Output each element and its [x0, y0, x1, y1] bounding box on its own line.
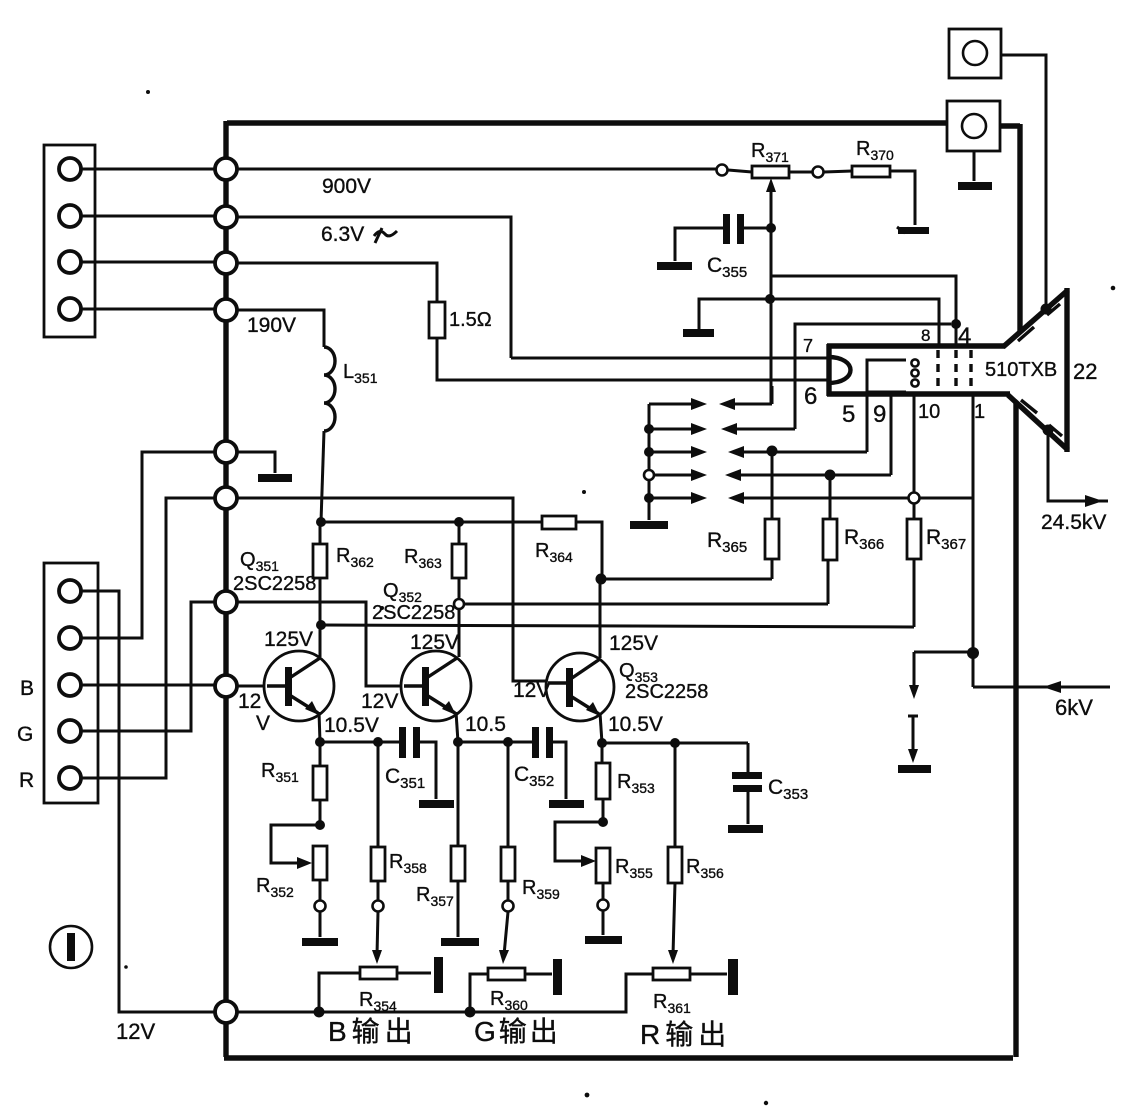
resistor R361 (pot) [653, 968, 690, 980]
svg-text:10.5: 10.5 [465, 713, 506, 736]
spark gap row1 right arrow to heater net [719, 398, 735, 410]
wire R371 to node [789, 171, 812, 174]
connector box P2 below P1 [947, 101, 1000, 151]
svg-text:12V: 12V [116, 1019, 155, 1044]
bus node circle gnd [215, 441, 237, 463]
wire R366 top riser [829, 475, 832, 519]
svg-text:6kV: 6kV [1055, 695, 1093, 720]
ground on grid2 line [683, 329, 714, 337]
svg-text:6: 6 [804, 383, 817, 410]
wire C353 to ground [747, 792, 750, 824]
wire node to R370 [824, 171, 852, 172]
node terminal circle left of R371 [717, 165, 728, 176]
spark gap to ground (dashed arrows) [913, 652, 916, 688]
wire R351 leads [319, 742, 322, 825]
connector J2 pin circle 2 (gnd) [59, 627, 81, 649]
wire R357 leads [457, 742, 460, 937]
wire R356 leads to R361 wiper [673, 743, 675, 955]
wire J1-3 to bus [81, 261, 215, 264]
CRT funnel interior mask [827, 291, 1067, 449]
ground below spark gap [898, 765, 931, 773]
spark gap row5 right arrow to pin1 [728, 492, 744, 504]
ground below C351 [419, 800, 454, 808]
wire R364 to Q353 collector node [576, 522, 602, 579]
junction emitter2 [453, 737, 463, 747]
junction row4 to R366 [825, 470, 836, 481]
svg-text:10.5V: 10.5V [608, 713, 663, 736]
CRT funnel top diagonal [1003, 290, 1068, 347]
wire Q352 collector lead [458, 609, 461, 657]
wire Q352 emitter line [458, 741, 533, 744]
connector J1 pin circle 4 [59, 298, 81, 320]
junction Q353 collector node [596, 574, 607, 585]
junction grid2 line [765, 294, 775, 304]
wire R355 bottom [602, 883, 605, 899]
CRT neck top [827, 343, 1005, 348]
node circle spark bus row4 [644, 470, 654, 480]
connector J1 pin circle 1 [59, 158, 81, 180]
wire C352 to ground [553, 742, 566, 799]
connector J2 pin circle 3 (B) [59, 674, 81, 696]
junction row3 to R365 [767, 446, 778, 457]
wire R354 right to terminal [397, 972, 431, 975]
svg-text:8: 8 [921, 326, 930, 345]
junction spark bus row5 [644, 493, 654, 503]
wire gnd stem of grid2 line [699, 299, 939, 346]
svg-text:10: 10 [918, 401, 940, 423]
CRT grid dashes pin1 [969, 350, 972, 390]
node circle R355 [598, 900, 609, 911]
resistor R352 (preset) [313, 846, 327, 880]
wire Q353 emitter line [602, 742, 748, 745]
wire R367 top riser / pin10 [913, 394, 916, 519]
wire C351 to ground [420, 742, 436, 799]
CRT grid dashes pin4 [954, 350, 957, 390]
junction emitter1-R358 [373, 737, 383, 747]
wire Q351 emitter line [320, 741, 400, 744]
svg-text:7: 7 [803, 336, 813, 356]
wire J1-2 to bus [81, 215, 215, 218]
svg-text:B输出: B输出 [328, 1016, 418, 1047]
wire pin3 rail to 1.5ohm [237, 263, 437, 302]
junction pin1 node [967, 647, 979, 659]
CRT funnel dashed coating top [1018, 304, 1060, 341]
ground below C352 [549, 800, 584, 808]
wire R360 right to terminal [525, 973, 552, 976]
junction above R352 [315, 820, 325, 830]
terminal bar right of R360 [553, 959, 562, 995]
wire 6kV [973, 686, 1110, 689]
connector J2 pin circle 5 (R) [59, 767, 81, 789]
junction anode dot on top diagonal [1041, 304, 1052, 315]
resistor R366 [823, 519, 837, 560]
svg-text:G输出: G输出 [474, 1016, 561, 1047]
svg-text:R: R [19, 769, 34, 792]
CRT grid dashes pin8 [936, 350, 939, 390]
ground below R370 [898, 227, 929, 234]
resistor R356 [668, 847, 682, 883]
wire R input net to Q353 base [237, 498, 548, 681]
capacitor C355 [723, 214, 730, 244]
wire Q352 collector to R366 [464, 560, 828, 604]
wire C355 node down to spark row1 [770, 228, 773, 404]
wire R input J2-5 riser [81, 498, 215, 778]
resistor 1.5ohm [429, 302, 445, 338]
CRT funnel bottom diagonal [1008, 395, 1068, 450]
wire to R371 [728, 170, 752, 172]
wire Q353 emitter lead [600, 713, 602, 743]
spark gap bus left [648, 404, 651, 520]
wire Q353 collector lead [599, 579, 602, 658]
spark gap row2 left arrow [649, 428, 694, 431]
svg-text:190V: 190V [247, 314, 296, 337]
svg-text:6.3V: 6.3V [321, 223, 364, 246]
R371 wiper arrow [770, 186, 773, 228]
svg-text:V: V [256, 712, 270, 735]
spark gap row3 left arrow [649, 451, 694, 454]
connector J2 pin circle 1 (12V) [59, 580, 81, 602]
svg-text:125V: 125V [609, 632, 658, 655]
wire R358 leads [377, 742, 380, 900]
wire to C353 [747, 743, 750, 772]
ground below C353 [728, 825, 763, 833]
wire pin1 down [972, 394, 975, 687]
resistor R357 [451, 846, 465, 881]
wire J1-1 to bus [81, 168, 215, 171]
svg-text:R输出: R输出 [640, 1019, 731, 1050]
terminal bar right of R361 [728, 959, 738, 995]
connector J1 upper-left [44, 145, 95, 337]
capacitor C351 [399, 727, 406, 758]
CRT neck bottom [827, 391, 1010, 396]
svg-text:5: 5 [842, 401, 855, 428]
wire 1.5ohm to heater pin6 [437, 338, 828, 380]
CRT neck left cap [826, 344, 831, 396]
connector J2 lower-left [44, 563, 98, 803]
node circle R352 [315, 901, 326, 912]
wire 24.5kV [1048, 430, 1108, 501]
connector J1 pin circle 2 [59, 205, 81, 227]
svg-text:12V: 12V [513, 679, 550, 702]
bus node circle B [215, 675, 237, 697]
resistor R355 (preset) [596, 848, 610, 883]
scan speckles [146, 90, 150, 94]
wire B input net to Q351 base [237, 685, 267, 688]
connector J1 pin circle 3 [59, 251, 81, 273]
resistor R359 [501, 847, 515, 881]
wire 900V rail [237, 168, 717, 171]
ground right of gnd node [258, 474, 292, 482]
svg-text:12: 12 [238, 690, 261, 713]
svg-text:B: B [20, 677, 34, 700]
resistor R365 [765, 519, 779, 559]
resistor R362 [313, 544, 327, 578]
svg-text:2SC2258: 2SC2258 [625, 681, 708, 703]
wire grid line to pin4 [771, 276, 956, 346]
wire 6.3V rail to heater pin7 [237, 217, 828, 358]
resistor R364 [542, 516, 576, 529]
ground left of C355 [657, 262, 692, 270]
resistor R367 [907, 519, 921, 559]
wire B input J2-3 to bus [81, 684, 215, 687]
spark gap row4 right arrow to pin9 [725, 469, 741, 481]
wire riser to R354 [319, 973, 360, 1012]
wire Q353 collector to R365 [601, 559, 772, 579]
svg-text:2SC2258: 2SC2258 [372, 602, 455, 624]
svg-text:4: 4 [958, 323, 971, 350]
svg-text:24.5kV: 24.5kV [1041, 511, 1106, 534]
wire R370 to ground [890, 171, 915, 225]
junction emitter3-R356 [670, 738, 680, 748]
connector J2 pin circle 4 (G) [59, 720, 81, 742]
node circle Q352 collector [454, 599, 464, 609]
capacitor C353 [732, 772, 762, 779]
spark gap row1 left arrow [649, 403, 694, 406]
resistor R358 [371, 847, 385, 881]
wire R363 leads [458, 522, 461, 599]
wire G input net to Q352 base [237, 602, 404, 686]
svg-text:22: 22 [1073, 359, 1097, 384]
svg-text:510TXB: 510TXB [985, 359, 1057, 381]
main circuit board border bottom [224, 1055, 1013, 1060]
transistor Q352 [401, 651, 471, 721]
junction rail R363 [454, 517, 464, 527]
wire pin1 node to spark gap [914, 651, 973, 654]
junction rail R362 [316, 517, 326, 527]
junction emitter1 [315, 737, 325, 747]
junction spark bus row3 [644, 447, 654, 457]
main circuit board border right upper [1000, 124, 1020, 334]
svg-text:1.5Ω: 1.5Ω [449, 309, 492, 331]
wire gnd bus node to ground [237, 452, 275, 473]
transistor Q351 [264, 651, 334, 721]
junction rail R354 [314, 1007, 325, 1018]
resistor R351 [313, 766, 327, 800]
bus node circle 6.3V [215, 206, 237, 228]
wire R355 node to ground [602, 911, 605, 935]
ground below R352 [302, 938, 338, 946]
spark gap row2 right arrow to pin4 net [721, 423, 737, 435]
wire R362 leads [319, 522, 322, 625]
R355 preset feedback loop [555, 822, 603, 861]
CRT cathode marks [911, 359, 918, 366]
CRT funnel dashed coating bottom [1021, 400, 1062, 436]
wire P1 to funnel anode dot [1001, 55, 1046, 306]
wire P2 to ground [973, 151, 976, 181]
wire G input J2-4 riser [81, 602, 215, 731]
wire R358 node to R354 wiper [377, 912, 378, 955]
node circle R358 [373, 901, 384, 912]
wire R352 node to ground [319, 912, 322, 937]
R352 preset feedback loop [271, 825, 320, 863]
junction spark bus row2 [644, 424, 654, 434]
ground below R355 [585, 936, 622, 944]
junction emitter2-R359 [503, 737, 513, 747]
wire J1-4 to bus [81, 308, 215, 311]
wire pin4 bypass to spark row2 [795, 324, 951, 429]
svg-text:2SC2258: 2SC2258 [233, 573, 316, 595]
node circle R359 [503, 901, 514, 912]
svg-text:9: 9 [873, 401, 886, 428]
resistor R370 [852, 166, 890, 177]
resistor R354 (pot) [360, 967, 397, 979]
wire Q351 collector to R367 [321, 559, 914, 627]
marker circled-i [50, 926, 92, 968]
wire R359 node to R360 wiper [504, 912, 508, 955]
resistor R363 [452, 544, 466, 578]
wire riser to R360 [470, 974, 488, 1012]
resistor R353 [596, 763, 610, 799]
spark gap row4 left arrow [654, 474, 694, 477]
wire 125V rail [321, 521, 542, 524]
wire Q351 emitter lead [319, 712, 320, 742]
wire 12V from J2-1 down to bottom rail [81, 591, 215, 1012]
svg-text:G: G [17, 723, 33, 746]
junction rail R360 [465, 1007, 476, 1018]
junction on pin4 line [951, 319, 961, 329]
squiggle after 6.3V [374, 228, 397, 243]
ground below P2 [958, 182, 992, 190]
svg-text:10.5V: 10.5V [324, 714, 379, 737]
wire R352 bottom [319, 880, 322, 900]
junction Q351 collector node [316, 620, 326, 630]
CRT heater arc [828, 357, 851, 383]
ground below R357 [441, 938, 479, 946]
bus node circle 900V [215, 158, 237, 180]
connector box P1 top right [949, 29, 1001, 78]
spark gap row5 left arrow [649, 497, 694, 500]
wire R365 top riser [771, 451, 774, 519]
wire J2-2 to gnd net riser [81, 452, 215, 638]
wire Q351 collector lead [319, 625, 322, 657]
inductor L351 [324, 347, 335, 431]
bus node circle pin3 [215, 252, 237, 274]
svg-text:1: 1 [974, 401, 985, 423]
junction dot on bottom diagonal (24.5kV) [1043, 425, 1054, 436]
spark gap row3 right arrow to pin5 [728, 446, 744, 458]
main circuit board border top [227, 120, 949, 125]
CRT screen face [1064, 288, 1069, 452]
bus node circle G [215, 591, 237, 613]
ground below spark bus [630, 521, 668, 529]
capacitor C352 [532, 727, 539, 758]
wire L351 to 125V rail [321, 431, 324, 522]
bus node circle R [215, 487, 237, 509]
wire R359 leads [507, 742, 510, 900]
main circuit board border right lower [1013, 402, 1018, 1057]
bus node circle 12V [215, 1001, 237, 1023]
wire R353 leads [602, 743, 603, 822]
wire R361 right to terminal [690, 973, 727, 976]
CRT grid electrode box [867, 360, 906, 392]
svg-text:12V: 12V [361, 690, 398, 713]
node terminal circle between R371 R370 [813, 167, 824, 178]
junction C355 node [766, 223, 776, 233]
resistor R360 (pot) [488, 968, 525, 980]
transistor Q353 [546, 653, 614, 721]
resistor R371 (pot) [752, 166, 789, 178]
node circle R367 top on row5 [909, 493, 920, 504]
bus node circle 190V [215, 299, 237, 321]
wire 12V bottom rail [237, 974, 653, 1012]
wire C355 right to wiper node [744, 227, 771, 230]
junction emitter3 [597, 738, 607, 748]
terminal bar right of R354 [434, 957, 443, 993]
svg-text:125V: 125V [264, 628, 313, 651]
wire Q352 emitter lead [456, 712, 458, 742]
wire C355 left to ground [675, 228, 723, 261]
wire 190V to L351 [237, 310, 324, 347]
junction above R355 [598, 817, 608, 827]
main circuit board border left (bus) [223, 121, 228, 1057]
svg-text:900V: 900V [322, 175, 371, 198]
